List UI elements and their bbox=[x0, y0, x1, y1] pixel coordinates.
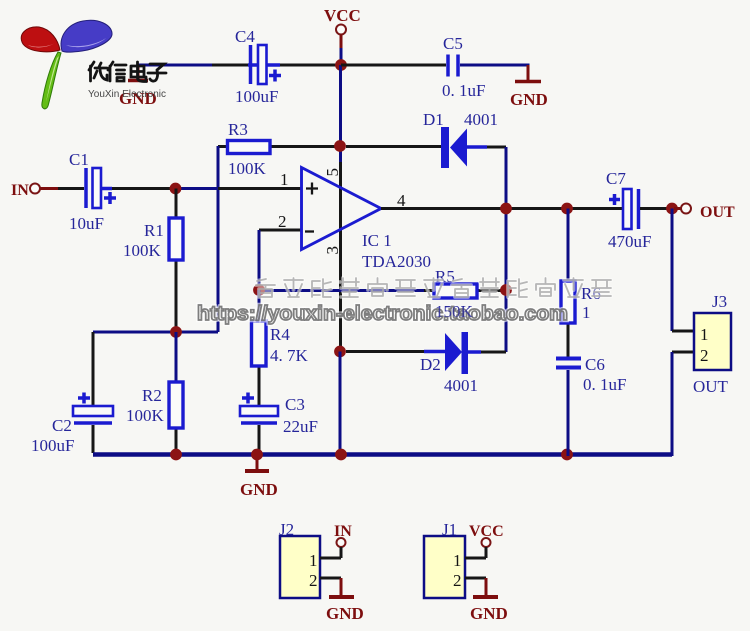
svg-text:4. 7K: 4. 7K bbox=[270, 346, 309, 365]
node rail/C3/GND junction bbox=[251, 449, 263, 461]
diode D2 bbox=[445, 333, 462, 371]
op-amp IC1 TDA2030 bbox=[302, 168, 382, 250]
svg-text:1: 1 bbox=[280, 170, 289, 189]
node input junction bbox=[170, 183, 182, 195]
svg-text:4001: 4001 bbox=[464, 110, 498, 129]
svg-text:R1: R1 bbox=[144, 221, 164, 240]
svg-text:GND: GND bbox=[326, 604, 364, 623]
resistor R6 bbox=[567, 209, 570, 282]
svg-text:J1: J1 bbox=[442, 520, 457, 539]
resistor R4 bbox=[258, 290, 261, 321]
svg-text:C4: C4 bbox=[235, 27, 255, 46]
svg-text:OUT: OUT bbox=[700, 204, 735, 221]
svg-text:D1: D1 bbox=[423, 110, 444, 129]
svg-text:2: 2 bbox=[453, 571, 462, 590]
ground (below C3) bbox=[256, 455, 259, 470]
connector J2 bbox=[280, 536, 320, 598]
svg-text:TDA2030: TDA2030 bbox=[362, 252, 431, 271]
wire R3 left drop bbox=[217, 146, 220, 332]
wire pin4 output row bbox=[381, 207, 623, 210]
capacitor C1 bbox=[84, 168, 88, 208]
svg-text:100K: 100K bbox=[228, 159, 267, 178]
ground (logo, top-left rail) bbox=[137, 65, 140, 79]
svg-text:3: 3 bbox=[323, 246, 342, 255]
node R5 right bbox=[500, 284, 512, 296]
node VCC junction bbox=[335, 59, 347, 71]
diode D1 bbox=[441, 127, 449, 168]
node pin4/D1 junction bbox=[500, 203, 512, 215]
node R3/VCC junction bbox=[334, 140, 346, 152]
svg-text:1: 1 bbox=[700, 325, 709, 344]
svg-text:GND: GND bbox=[470, 604, 508, 623]
terminal OUT bbox=[681, 204, 691, 214]
svg-text:470uF: 470uF bbox=[608, 232, 651, 251]
wire mid node horizontal bbox=[93, 331, 218, 334]
wire D1 row left bbox=[346, 145, 441, 148]
wire C5 to GND corner bbox=[460, 64, 530, 67]
svg-text:C2: C2 bbox=[52, 416, 72, 435]
svg-text:10uF: 10uF bbox=[69, 214, 104, 233]
wire C1 to pin1 bbox=[101, 187, 112, 191]
logo red leaf bbox=[21, 27, 60, 52]
svg-text:R2: R2 bbox=[142, 386, 162, 405]
svg-text:C5: C5 bbox=[443, 34, 463, 53]
svg-text:100uF: 100uF bbox=[31, 436, 74, 455]
capacitor C3 bbox=[242, 393, 254, 404]
capacitor C2 bbox=[92, 332, 95, 453]
svg-text:4001: 4001 bbox=[444, 376, 478, 395]
node rail/pin3 junction bbox=[335, 449, 347, 461]
svg-text:0. 1uF: 0. 1uF bbox=[442, 81, 485, 100]
svg-text:GND: GND bbox=[240, 480, 278, 499]
svg-text:GND: GND bbox=[510, 90, 548, 109]
svg-text:C7: C7 bbox=[606, 169, 626, 188]
wire top rail left bbox=[138, 64, 212, 67]
connector J1 bbox=[424, 536, 465, 598]
node output/R6 junction bbox=[561, 203, 573, 215]
svg-text:C3: C3 bbox=[285, 395, 305, 414]
wire VCC stub bbox=[340, 35, 343, 50]
svg-text:2: 2 bbox=[309, 571, 318, 590]
svg-text:YouXin Electronic: YouXin Electronic bbox=[88, 89, 166, 100]
capacitor C6 bbox=[556, 359, 581, 368]
svg-text:150K: 150K bbox=[435, 302, 474, 321]
resistor R1 bbox=[175, 189, 178, 333]
svg-text:1: 1 bbox=[309, 551, 318, 570]
resistor R3 bbox=[218, 145, 228, 148]
svg-text:22uF: 22uF bbox=[283, 417, 318, 436]
svg-text:100K: 100K bbox=[126, 406, 165, 425]
svg-text:1: 1 bbox=[453, 551, 462, 570]
wire pin2 bbox=[259, 229, 301, 232]
svg-text:OUT: OUT bbox=[693, 377, 729, 396]
wire IN to C1 bbox=[58, 187, 84, 190]
svg-text:2: 2 bbox=[700, 346, 709, 365]
svg-text:C6: C6 bbox=[585, 355, 605, 374]
wire D2 row bbox=[346, 350, 424, 353]
capacitor C4 bbox=[248, 63, 258, 67]
svg-text:5: 5 bbox=[323, 168, 342, 177]
ground (J1) bbox=[485, 578, 488, 596]
logo text YouXin (drawn glyph strokes) bbox=[89, 62, 166, 82]
wire rail to C5 bbox=[341, 64, 446, 67]
svg-text:https://youxin-electronic.taob: https://youxin-electronic.taobao.com bbox=[197, 303, 568, 325]
svg-text:R4: R4 bbox=[270, 325, 290, 344]
svg-text:VCC: VCC bbox=[324, 6, 361, 25]
svg-text:D2: D2 bbox=[420, 355, 441, 374]
svg-text:0. 1uF: 0. 1uF bbox=[583, 375, 626, 394]
svg-text:100uF: 100uF bbox=[235, 87, 278, 106]
svg-text:1: 1 bbox=[582, 303, 591, 322]
logo green stem bbox=[42, 52, 61, 109]
wire pin3 to rail bbox=[339, 352, 342, 456]
node R1/R2/C2/R3 junction bbox=[170, 326, 182, 338]
svg-text:R3: R3 bbox=[228, 120, 248, 139]
logo blue leaf bbox=[61, 20, 112, 52]
svg-text:2: 2 bbox=[278, 212, 287, 231]
node output/J3 junction bbox=[666, 203, 678, 215]
wire pin3 vertical bbox=[339, 162, 342, 351]
wire out column to J3 bbox=[671, 209, 674, 332]
resistor R5 bbox=[259, 289, 424, 292]
wire VCC down to R3 row bbox=[339, 65, 342, 162]
capacitor C7 bbox=[609, 194, 620, 205]
connector J3 bbox=[694, 313, 731, 370]
svg-text:J2: J2 bbox=[279, 520, 294, 539]
node rail/R2 junction bbox=[170, 449, 182, 461]
svg-text:IC 1: IC 1 bbox=[362, 231, 392, 250]
node R5 left bbox=[253, 284, 265, 296]
node rail/C6 junction bbox=[561, 449, 573, 461]
svg-text:100K: 100K bbox=[123, 241, 162, 260]
node D2 left junction bbox=[334, 346, 346, 358]
capacitor C5 bbox=[448, 55, 458, 77]
ground (C5) bbox=[515, 80, 541, 84]
ground (J2) bbox=[340, 578, 343, 596]
svg-text:J3: J3 bbox=[712, 292, 727, 311]
resistor R2 bbox=[175, 332, 178, 382]
wire C7 to OUT bbox=[640, 207, 674, 210]
svg-text:C1: C1 bbox=[69, 150, 89, 169]
wire D1 corner down bbox=[505, 147, 508, 352]
wire bottom rail bbox=[93, 452, 672, 456]
svg-text:IN: IN bbox=[11, 182, 29, 199]
